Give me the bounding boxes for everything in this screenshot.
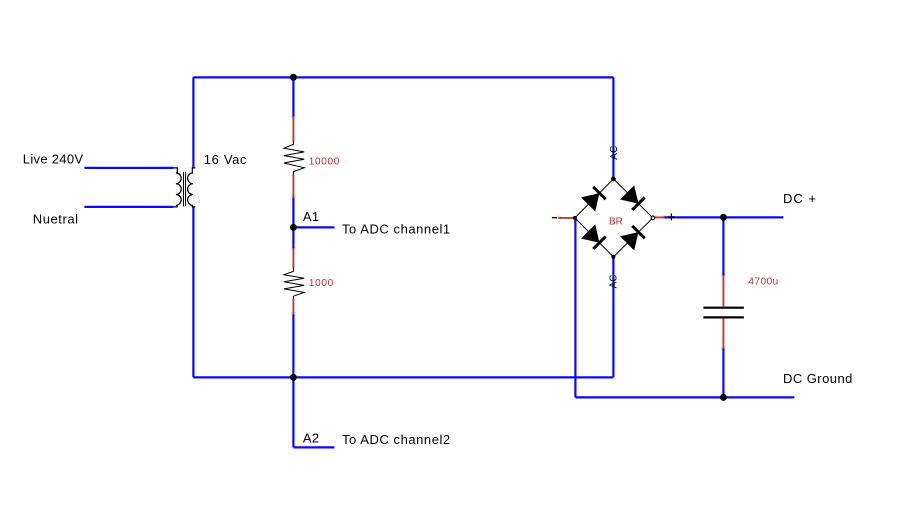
bridge terminal minus	[573, 216, 577, 220]
pin lead: R2 top	[292, 248, 294, 268]
wire: A2 stub	[293, 446, 334, 448]
svg-text:A1: A1	[303, 209, 320, 224]
junction node: ground capacitor tap	[720, 394, 727, 401]
svg-text:Nuetral: Nuetral	[33, 212, 79, 227]
svg-text:DC Ground: DC Ground	[783, 371, 853, 386]
svg-text:4700u: 4700u	[748, 277, 778, 288]
svg-text:To ADC channel2: To ADC channel2	[342, 432, 451, 447]
transformer T1 core	[183, 172, 185, 207]
wire: bridge AC top drop	[612, 77, 614, 178]
pin lead: R1 top	[292, 116, 294, 141]
resistor R2 1000	[284, 268, 304, 299]
svg-text:DC +: DC +	[783, 191, 817, 206]
wire: top rail from transformer secondary to bridge AC top	[193, 76, 613, 78]
bridge terminal plus	[651, 216, 655, 220]
wire: live input	[84, 167, 173, 169]
transformer T1 primary winding	[173, 168, 181, 207]
diode D4 bottom-right	[620, 225, 645, 250]
wire: bottom rail from transformer to bridge AC bottom	[193, 376, 613, 378]
wire: DC+ rail	[664, 216, 783, 218]
resistor R1 10000	[284, 141, 304, 175]
svg-text:A2: A2	[303, 431, 320, 446]
svg-text:1000: 1000	[309, 278, 334, 289]
svg-text:Live 240V: Live 240V	[23, 152, 84, 167]
pin lead: R1 bottom	[292, 174, 294, 197]
wire: neutral input	[84, 206, 173, 208]
bridge rectifier BR outline	[575, 179, 653, 257]
diode D3 bottom-left	[581, 224, 606, 249]
svg-text:To ADC channel1: To ADC channel1	[342, 222, 451, 237]
wire: bridge AC bottom drop	[612, 257, 614, 377]
pin lead: C1 top	[722, 275, 724, 306]
diode D1 top-left	[581, 186, 606, 211]
bridge terminal AC bottom	[611, 255, 615, 259]
wire: below R2 to bottom rail and down to A2	[292, 314, 294, 447]
wire: divider branch top	[292, 77, 294, 116]
pin lead: C1 bottom	[722, 318, 724, 348]
diode D2 top-right	[620, 185, 645, 210]
capacitor C1 plates	[703, 307, 744, 309]
pin lead: R2 bottom	[292, 298, 294, 314]
wire: between R1 and R2 through node A1	[292, 197, 294, 248]
pin lead: bridge minus	[558, 217, 574, 219]
pin connection markers	[291, 115, 296, 119]
polarity mark plus	[668, 216, 675, 218]
bridge terminal AC top	[611, 177, 616, 182]
svg-text:AC: AC	[609, 146, 620, 160]
junction node: A1	[290, 224, 297, 231]
wire: secondary upper vertical	[192, 77, 194, 167]
polarity mark minus	[552, 217, 557, 219]
junction node: DC+ capacitor tap	[720, 214, 727, 221]
svg-text:16 Vac: 16 Vac	[204, 152, 247, 167]
svg-text:BR: BR	[609, 217, 623, 228]
svg-text:AC: AC	[609, 274, 620, 288]
wire: bridge negative drop	[574, 218, 576, 397]
junction node: bottom rail tap	[290, 374, 297, 381]
junction node: divider tap on top rail	[290, 74, 297, 81]
transformer T1 secondary winding	[188, 168, 196, 207]
svg-text:10000: 10000	[309, 157, 340, 168]
wire: capacitor top blue	[722, 217, 724, 275]
wire: ground rail	[575, 396, 794, 398]
pin lead: bridge plus	[653, 216, 664, 218]
wire: secondary lower vertical	[192, 207, 194, 378]
wire: capacitor bottom blue	[722, 348, 724, 397]
wire: A1 stub	[293, 226, 334, 228]
